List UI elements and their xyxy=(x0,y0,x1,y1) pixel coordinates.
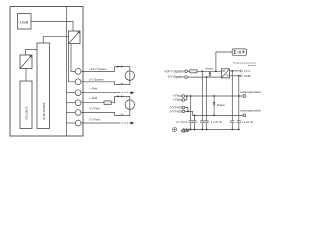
wire 0V System rail xyxy=(187,76,221,78)
wire U2 to terminal 1 xyxy=(71,44,75,72)
node 0V cap branch xyxy=(206,76,208,78)
node + Feld cap branch xyxy=(190,95,192,97)
svg-text:Leistungskontakte: Leistungskontakte xyxy=(240,90,261,94)
FELDBUS block xyxy=(20,81,32,129)
terminal 4 xyxy=(75,100,81,106)
wire wall to terminal 6 xyxy=(67,122,76,124)
capacitor C6 (GND) xyxy=(237,76,241,130)
wire wall to terminal 4 xyxy=(67,102,76,104)
earth bus node C2 xyxy=(194,129,196,131)
wire wall to terminal 5 xyxy=(67,112,76,114)
node + Feld join xyxy=(186,95,188,97)
power jumper contact 2 xyxy=(243,114,246,117)
svg-text:0 V System: 0 V System xyxy=(89,78,104,82)
minus mark PS2 xyxy=(121,113,123,115)
capacitor C5 (+5V) xyxy=(230,71,234,130)
status LED D1 system xyxy=(209,71,212,77)
external supply G1 box xyxy=(232,49,246,55)
wire terminal6 power rail (dashed continuation arrow) xyxy=(81,122,134,125)
wire to external supply G1 xyxy=(216,52,232,71)
wire 0 V Feld rail step xyxy=(185,111,243,115)
node 0 V Feld LED branch xyxy=(213,115,215,117)
internal bus wall xyxy=(66,7,68,137)
wire fuse F1 to supply PS2 plus xyxy=(111,96,130,102)
supply PS1 xyxy=(125,71,134,80)
terminal 3 xyxy=(75,90,81,96)
svg-text:+ Feld: + Feld xyxy=(89,96,97,100)
svg-text:USB: USB xyxy=(20,19,28,24)
wire U2 to terminal 2 xyxy=(69,44,76,82)
node +5V cap branch xyxy=(231,70,233,72)
svg-text:0 V Feld: 0 V Feld xyxy=(89,106,100,110)
svg-text:Status: Status xyxy=(217,103,226,107)
node +24V feed branch xyxy=(215,70,217,72)
wire U1 to FELDBUS xyxy=(25,69,27,82)
svg-text:GND: GND xyxy=(244,74,252,78)
DC/DC converter U3 xyxy=(222,69,230,78)
wire ELEKTRONIK to isolator U2 xyxy=(43,36,68,43)
status LED D2 field xyxy=(213,96,216,115)
wire terminal2 to supply PS1 minus xyxy=(81,80,130,84)
terminal 6 xyxy=(75,120,81,126)
svg-text:0 V Feld: 0 V Feld xyxy=(89,118,100,122)
chassis ground symbol xyxy=(181,128,189,132)
node 0 V Feld join xyxy=(187,111,189,113)
wire +24V System rail xyxy=(187,70,190,72)
earth bus node C3 xyxy=(201,129,203,131)
terminal 0 V Feld 1 xyxy=(182,106,185,109)
wire GND output xyxy=(230,75,240,77)
wire + Feld rail to power contact xyxy=(185,95,243,97)
svg-text:+5 V: +5 V xyxy=(244,69,250,73)
earth bus node C1 xyxy=(190,129,192,131)
svg-text:1 x 22 nF: 1 x 22 nF xyxy=(211,120,223,124)
fuse F1 xyxy=(104,101,111,105)
svg-text:FELDBUS: FELDBUS xyxy=(24,106,28,119)
earth bus node C5 xyxy=(231,129,233,131)
svg-text:+ Feld: + Feld xyxy=(89,86,97,90)
isolator U1 (fieldbus) xyxy=(20,55,32,69)
svg-text:Status: Status xyxy=(206,66,215,70)
wire USB to isolator U2 xyxy=(31,22,73,32)
wire +5V output xyxy=(230,70,240,72)
junction dot PS2 plus xyxy=(117,96,119,98)
terminal 2 xyxy=(75,79,81,85)
plus mark PS2 xyxy=(121,95,123,97)
svg-text:Leistungskontakte: Leistungskontakte xyxy=(240,109,261,113)
wire terminal1 to supply PS1 plus xyxy=(81,67,130,72)
capacitor C1 (+Feld) xyxy=(189,96,193,130)
terminal 0 V Feld 2 xyxy=(182,110,185,113)
svg-text:+24 V System: +24 V System xyxy=(89,67,107,71)
earth bus node C6 xyxy=(238,129,240,131)
terminal +24V System xyxy=(185,70,188,73)
earth bus node C4 xyxy=(206,129,208,131)
minus mark PS1 xyxy=(121,82,123,84)
supply PS2 xyxy=(125,100,134,109)
node GND cap branch xyxy=(238,75,240,77)
svg-text:+24 V System: +24 V System xyxy=(164,69,184,73)
USB port box xyxy=(18,14,32,30)
wire 0 V Feld 1 join xyxy=(185,108,188,112)
svg-text:0 V Feld: 0 V Feld xyxy=(170,110,182,114)
svg-text:0 V System: 0 V System xyxy=(168,75,185,79)
power jumper contact 1 xyxy=(243,95,246,98)
wire terminal4 to fuse F1 xyxy=(81,102,104,104)
capacitor C4 (0V System) xyxy=(205,77,209,129)
wire U1 to ELEKTRONIK xyxy=(26,50,38,56)
ELEKTRONIK block xyxy=(37,43,50,129)
terminal 1 xyxy=(75,69,81,75)
svg-text:1 x 10 nF: 1 x 10 nF xyxy=(242,120,254,124)
wire wall to terminal 3 xyxy=(67,92,76,94)
wire + Feld 2 join xyxy=(185,96,187,100)
wire terminal3 power rail (dashed continuation arrow) xyxy=(81,91,134,94)
svg-text:2 x 10 nF: 2 x 10 nF xyxy=(176,120,188,124)
node 0 V Feld cap branch xyxy=(194,115,196,117)
svg-text:getrennt: getrennt xyxy=(248,64,256,67)
terminal + Feld 1 xyxy=(182,95,185,98)
earth bus xyxy=(184,129,239,131)
protective earth symbol xyxy=(172,128,176,132)
wire fuse to DC/DC U3 xyxy=(197,70,222,72)
bus contact ticks GND xyxy=(240,75,242,77)
capacitor C3 (+24V System) xyxy=(200,71,204,129)
node +24V cap branch xyxy=(201,70,203,72)
isolator U2 (system) xyxy=(69,31,81,44)
junction dot PS1 plus xyxy=(117,66,119,68)
plus mark PS1 xyxy=(121,65,123,67)
terminal 0V System xyxy=(185,76,188,79)
node + Feld right branch xyxy=(238,95,240,97)
svg-text:Einspeisung galvanisch: Einspeisung galvanisch xyxy=(233,62,257,64)
capacitor C2 (0V Feld) xyxy=(192,115,196,129)
terminal 5 xyxy=(75,110,81,116)
fuse F2 xyxy=(190,70,197,73)
bus contact ticks +5V xyxy=(240,70,242,72)
svg-text:ELEKTRONIK: ELEKTRONIK xyxy=(42,102,46,119)
coupler housing outline xyxy=(10,7,83,137)
wire terminal5 to supply PS2 minus xyxy=(81,110,130,116)
node + Feld LED branch xyxy=(213,95,215,97)
svg-text:+ Feld: + Feld xyxy=(173,98,182,102)
terminal + Feld 2 xyxy=(182,99,185,102)
